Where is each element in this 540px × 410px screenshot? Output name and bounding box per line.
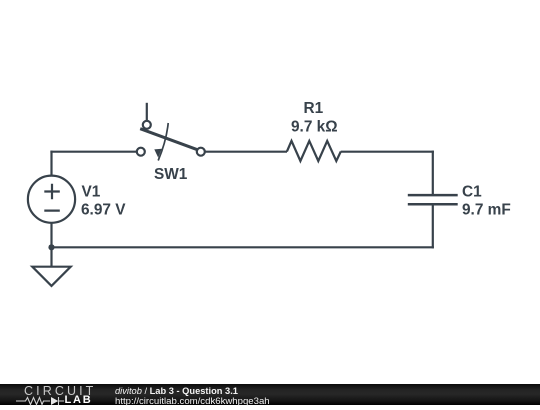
wire R1 to top-right corner: [341, 151, 434, 153]
svg-text:R1: R1: [304, 100, 324, 117]
wire bottom horizontal: [52, 246, 434, 248]
footer text: [115, 385, 270, 406]
footer bar: [0, 384, 540, 405]
switch SW1: [137, 103, 205, 161]
svg-text:SW1: SW1: [154, 166, 188, 183]
svg-text:6.97 V: 6.97 V: [81, 202, 126, 219]
svg-text:9.7 mF: 9.7 mF: [462, 202, 511, 219]
svg-text:V1: V1: [82, 184, 101, 201]
wire V1 bottom stub: [50, 223, 52, 248]
voltage source V1: [28, 176, 75, 223]
wire V1 top stub: [50, 151, 52, 177]
wire top-left horizontal (V1 to SW1): [50, 151, 137, 153]
capacitor C1: [408, 195, 458, 204]
svg-text:C1: C1: [462, 184, 482, 201]
svg-text:9.7 kΩ: 9.7 kΩ: [291, 119, 338, 136]
wire C1 bottom vertical: [432, 206, 434, 249]
CircuitLab logo: [0, 384, 110, 405]
wire ground stub: [50, 247, 52, 266]
junction node (V1- / ground / bottom rail): [48, 244, 54, 250]
wire SW1 to R1: [204, 151, 287, 153]
resistor R1: [287, 141, 341, 161]
wire C1 top vertical: [432, 151, 434, 194]
ground: [32, 267, 70, 286]
